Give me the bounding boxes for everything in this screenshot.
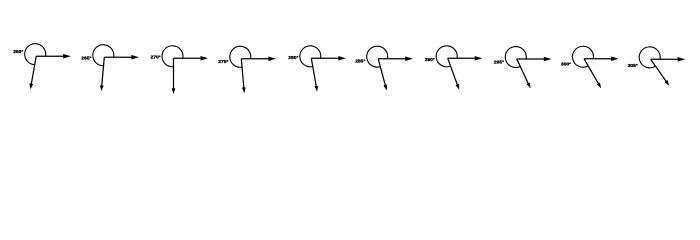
- diagram 6: second ray at 285 deg with arrowhead: [378, 59, 387, 90]
- svg-text:305°: 305°: [628, 63, 638, 69]
- diagram 7: horizontal ray with arrowhead: [448, 56, 482, 60]
- diagram 7: second ray at 290 deg with arrowhead: [448, 58, 459, 89]
- diagram 4: horizontal ray with arrowhead: [241, 57, 275, 61]
- diagram 4: angle label 275 deg: [218, 59, 228, 65]
- diagram 9: horizontal ray with arrowhead: [584, 57, 618, 61]
- diagram 2: reflex angle arc (265 deg): [93, 45, 114, 66]
- diagram 9: second ray at 300 deg with arrowhead: [584, 59, 601, 88]
- diagram 3: angle label 270 deg: [151, 55, 161, 61]
- diagram 2: horizontal ray with arrowhead: [104, 55, 138, 59]
- diagram 8: angle label 295 deg: [494, 60, 504, 66]
- svg-text:290°: 290°: [425, 57, 435, 63]
- diagram 8: horizontal ray with arrowhead: [517, 57, 551, 61]
- diagram 3: horizontal ray with arrowhead: [174, 56, 208, 60]
- diagram 6: horizontal ray with arrowhead: [378, 57, 412, 61]
- diagram 5: second ray at 280 deg with arrowhead: [311, 58, 318, 91]
- diagram 5: horizontal ray with arrowhead: [311, 56, 345, 60]
- svg-text:295°: 295°: [494, 60, 504, 66]
- svg-text:285°: 285°: [355, 58, 365, 64]
- diagram 9: reflex angle arc (300 deg): [572, 46, 593, 67]
- diagram 10: second ray at 305 deg with arrowhead: [651, 59, 669, 85]
- diagram 5: angle label 280 deg: [288, 55, 298, 61]
- diagram 4: second ray at 275 deg with arrowhead: [241, 59, 245, 93]
- diagram 1: second ray at 260 deg with arrowhead: [30, 56, 37, 89]
- diagram 1: reflex angle arc (260 deg): [25, 44, 46, 65]
- svg-text:275°: 275°: [218, 59, 228, 65]
- diagram 6: angle label 285 deg: [355, 58, 365, 64]
- diagram 3: second ray at 270 deg with arrowhead: [172, 58, 175, 93]
- diagram 1: horizontal ray with arrowhead: [36, 54, 70, 58]
- svg-text:280°: 280°: [288, 55, 298, 61]
- svg-text:260°: 260°: [13, 49, 23, 55]
- diagram 8: second ray at 295 deg with arrowhead: [517, 59, 531, 88]
- diagram 5: reflex angle arc (280 deg): [300, 46, 321, 67]
- diagram 8: reflex angle arc (295 deg): [505, 47, 526, 68]
- svg-text:265°: 265°: [81, 56, 91, 62]
- diagram 3: reflex angle arc (270 deg): [162, 46, 183, 67]
- diagram 2: angle label 265 deg: [81, 56, 91, 62]
- svg-text:270°: 270°: [151, 55, 161, 61]
- diagram 6: reflex angle arc (285 deg): [367, 46, 388, 67]
- diagram 7: angle label 290 deg: [425, 57, 435, 63]
- diagram 10: angle label 305 deg: [628, 63, 638, 69]
- diagram 4: reflex angle arc (275 deg): [230, 46, 251, 67]
- diagram 9: angle label 300 deg: [561, 62, 571, 68]
- diagram 1: angle label 260 deg: [13, 49, 23, 55]
- diagram 10: reflex angle arc (305 deg): [639, 47, 660, 68]
- svg-text:300°: 300°: [561, 62, 571, 68]
- diagram 7: reflex angle arc (290 deg): [436, 46, 457, 67]
- diagram 10: horizontal ray with arrowhead: [651, 57, 685, 61]
- diagram 2: second ray at 265 deg with arrowhead: [100, 57, 104, 90]
